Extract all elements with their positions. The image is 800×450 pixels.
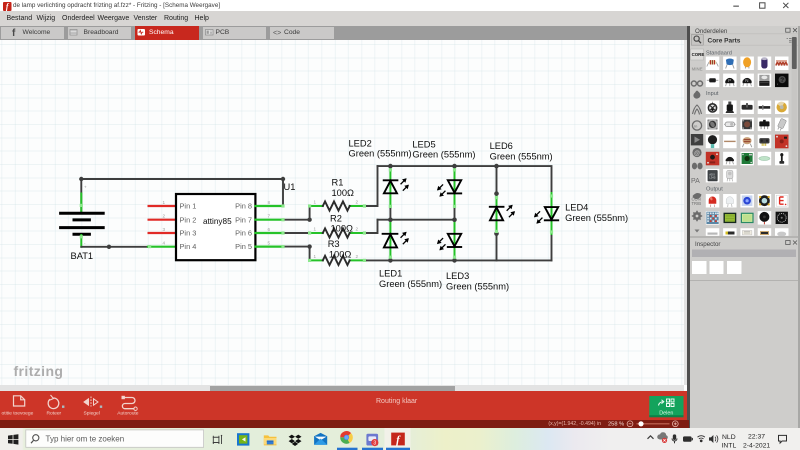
resistor R1: [310, 205, 366, 207]
LED6 green wire: [496, 194, 498, 234]
mouse icon: [693, 193, 702, 199]
infinity logo: [691, 81, 702, 86]
Delen button: [649, 396, 683, 417]
svg-text:Delen: Delen: [659, 410, 673, 416]
svg-text:4: 4: [163, 240, 166, 245]
slide switch icon: [724, 122, 736, 127]
LED4 green wire: [551, 193, 553, 234]
tiny pin numbers: [84, 185, 359, 260]
svg-text:6: 6: [268, 227, 271, 232]
app with badge icon: [366, 434, 378, 447]
tab bar: [0, 26, 688, 40]
LED2 green wire: [389, 167, 391, 207]
knob gold icon: [777, 102, 787, 113]
svg-text:Typ hier om te zoeken: Typ hier om te zoeken: [46, 435, 125, 444]
buzzer icon: [759, 212, 769, 224]
tray battery: [683, 436, 692, 441]
battery BAT1: [61, 213, 104, 234]
tilt sensor icon: [776, 118, 786, 131]
running app underline indicators: [337, 448, 358, 450]
svg-text:Green (555nm): Green (555nm): [490, 151, 553, 161]
wire LED6 column verticals: [496, 166, 498, 260]
button add note: [14, 396, 25, 406]
LED3 arrows: [437, 239, 445, 251]
7-segment icon: [776, 195, 787, 206]
slide pot thin icon: [759, 105, 771, 110]
svg-text:N: N: [745, 78, 748, 83]
svg-text:Input: Input: [706, 91, 719, 97]
blue LED icon: [742, 195, 753, 206]
svg-text:otitie toevoege: otitie toevoege: [2, 410, 34, 416]
svg-text:Green (555nm): Green (555nm): [412, 150, 475, 160]
svg-text:5: 5: [268, 240, 271, 245]
capacitor blue icon: [726, 59, 735, 69]
std row1 cells: [706, 57, 789, 71]
LED5 symbol: [448, 180, 461, 193]
CONTRIB text: [692, 197, 702, 207]
membrane oval icon: [759, 157, 770, 161]
IR receiver icon: [727, 171, 733, 182]
potentiometer icon: [726, 102, 735, 114]
inspector swatches: [692, 261, 742, 274]
resistor R2: [310, 232, 366, 234]
op-amp U1 attiny85 box: [176, 194, 255, 260]
task view icon: [213, 435, 222, 444]
svg-text:1: 1: [314, 227, 317, 232]
svg-text:100Ω: 100Ω: [331, 223, 354, 233]
microphone icon: [708, 135, 717, 148]
pin labels inside U1: [180, 202, 253, 252]
vertical trim pot icon: [779, 153, 784, 164]
wire top bus: [378, 166, 552, 193]
seeed wave icon: [693, 105, 702, 115]
input row3 cells: [706, 135, 771, 149]
wire green battery plus stub: [80, 194, 82, 213]
junction dots middle bus: [388, 217, 393, 222]
mosfet icon: [759, 75, 769, 86]
svg-text:-: -: [84, 241, 86, 246]
pin1 stub red: [149, 205, 176, 207]
transistor black icon: [726, 157, 734, 164]
svg-text:attiny85: attiny85: [203, 217, 232, 226]
svg-text:PA: PA: [691, 178, 700, 185]
wire green battery minus stub: [80, 235, 82, 247]
pin8 stub green: [255, 205, 283, 207]
junction dots bottom bus: [388, 258, 393, 263]
svg-text:Pin 1: Pin 1: [180, 202, 197, 211]
node bendpoint battery top: [79, 177, 83, 181]
svg-text:Roteer: Roteer: [47, 410, 62, 416]
chrome icon: [340, 431, 353, 444]
input row2 cells: [706, 118, 789, 132]
white LED icon: [726, 197, 733, 207]
svg-text:2: 2: [163, 214, 166, 219]
switch SPDT icon: [759, 120, 769, 129]
svg-text:R2: R2: [330, 214, 342, 224]
tray microphone: [672, 434, 678, 443]
flex strip icon: [724, 141, 736, 142]
svg-text:Pin 8: Pin 8: [235, 202, 252, 211]
junction dots LED6: [494, 191, 499, 196]
inspector title bar: [692, 250, 796, 258]
svg-text:1: 1: [314, 200, 317, 205]
red LED icon: [709, 196, 717, 207]
svg-text:3: 3: [373, 441, 376, 447]
svg-text:R3: R3: [328, 239, 340, 249]
svg-text:Spiegel: Spiegel: [84, 410, 100, 416]
svg-text:LED4: LED4: [565, 203, 588, 213]
svg-text:LED1: LED1: [379, 269, 402, 279]
std row2 cells: [706, 74, 771, 88]
svg-text:Core Parts: Core Parts: [708, 37, 741, 44]
svg-text:LED2: LED2: [349, 138, 372, 148]
taskbar: [0, 427, 689, 428]
svg-text:MINE: MINE: [692, 67, 703, 72]
resistor R3: [310, 259, 366, 261]
LED5 green wire: [454, 167, 456, 207]
green pcb sensor icon: [742, 153, 753, 164]
tray chevron: [648, 436, 654, 439]
gear icon: [692, 211, 702, 221]
wire R1 right to top bus: [366, 166, 378, 206]
tab icons: [0, 26, 688, 40]
svg-text:LED3: LED3: [446, 271, 469, 281]
junction dots top bus: [388, 164, 393, 169]
encoder w wires icon: [759, 138, 769, 146]
LCD teal icon: [741, 213, 754, 223]
LED3 symbol: [448, 234, 461, 247]
LED3 green wire: [454, 220, 456, 259]
wire pin4 green stub: [148, 246, 176, 248]
svg-text:Green (555nm): Green (555nm): [349, 148, 412, 158]
output row2 cells: [706, 211, 771, 225]
wire pin7 to R1: [283, 206, 310, 220]
LED5 arrows: [437, 185, 445, 197]
svg-text:R1: R1: [332, 177, 344, 187]
wire pin6 to R2: [283, 232, 310, 234]
red pcb sensor icon: [775, 135, 789, 149]
bugs icon: [692, 163, 703, 170]
scroll down arrow: [695, 230, 700, 233]
inductor icon: [776, 61, 787, 66]
toolbar icons and status: [0, 391, 689, 428]
active app cell highlight: [385, 428, 411, 450]
svg-text:P: P: [728, 78, 731, 83]
tray speaker: [709, 435, 713, 443]
svg-text:+: +: [84, 185, 87, 190]
svg-text:1: 1: [163, 200, 166, 205]
svg-text:Output: Output: [706, 186, 723, 192]
tray onedrive: [657, 432, 668, 439]
svg-text:100Ω: 100Ω: [332, 188, 355, 198]
transistor PNP icon: [725, 78, 734, 86]
LED4 arrows: [534, 212, 542, 224]
output row3 cells partial: [706, 228, 789, 236]
circle logo: [692, 121, 701, 130]
resistor smd icon: [707, 78, 719, 82]
output row1 cells: [706, 194, 789, 208]
LED6 arrows: [507, 205, 515, 217]
menu bar: [0, 11, 800, 27]
title bar: [0, 0, 800, 11]
tray wifi: [698, 436, 705, 442]
trimpot icon: [708, 102, 718, 113]
action center: [779, 435, 787, 443]
inspector divider: [690, 236, 798, 238]
svg-text:Pin 4: Pin 4: [180, 242, 197, 251]
LED2 symbol: [384, 180, 398, 193]
svg-text:Pin 6: Pin 6: [235, 229, 252, 238]
svg-text:Green (555nm): Green (555nm): [565, 213, 628, 223]
mail icon: [314, 433, 327, 445]
fritzing taskbar icon: [391, 433, 405, 446]
svg-text:CORE: CORE: [692, 52, 705, 57]
app movie maker icon: [237, 433, 249, 445]
svg-text:Inspector: Inspector: [695, 241, 720, 248]
LED1 green wire: [389, 220, 391, 259]
capacitor orange icon: [743, 57, 751, 68]
svg-text:U1: U1: [284, 182, 296, 192]
button Autoroute: [122, 398, 135, 409]
pin3 stub red: [149, 232, 176, 234]
svg-text:7: 7: [268, 214, 271, 219]
tactile button icon: [742, 120, 752, 130]
pin5 stub green: [255, 246, 283, 248]
category strip: [691, 49, 705, 72]
svg-text:?: ?: [780, 77, 784, 84]
svg-text:Pin 5: Pin 5: [235, 242, 252, 251]
search box: [26, 430, 204, 447]
red toolbar: [0, 391, 687, 420]
motor fan icon: [759, 195, 770, 206]
pin6 stub green: [255, 232, 283, 234]
button Spiegel: [84, 397, 98, 407]
svg-text:2: 2: [356, 227, 359, 232]
svg-text:LED5: LED5: [412, 139, 435, 149]
svg-text:2-4-2021: 2-4-2021: [743, 442, 770, 449]
svg-text:Autoroute: Autoroute: [117, 410, 138, 416]
resistor icon: [707, 60, 719, 66]
LED2 arrows: [401, 178, 409, 190]
wire battery bottom to pin4: [81, 246, 148, 248]
scrollbars: [0, 385, 684, 391]
wire battery top to U1 pin8: [81, 179, 283, 212]
canvas with grid: [0, 40, 684, 385]
window buttons: [725, 0, 800, 11]
svg-text:TRIB: TRIB: [692, 201, 702, 206]
wire LED4 column bottom: [551, 234, 553, 260]
transistor NPN icon: [743, 78, 752, 86]
slider pot icon: [742, 103, 753, 109]
LED matrix icon: [706, 212, 718, 224]
svg-text:8: 8: [268, 200, 271, 205]
gauge meter icon: [776, 212, 788, 224]
file explorer icon: [264, 435, 277, 445]
pin2 stub red: [149, 219, 176, 221]
right panel: [690, 26, 798, 428]
accel chip icon: [708, 170, 718, 181]
svg-text:1: 1: [314, 254, 317, 259]
windows start logo: [8, 434, 18, 444]
LED1 symbol: [383, 234, 398, 248]
svg-text:@: @: [694, 151, 700, 157]
svg-text:2: 2: [356, 254, 359, 259]
at-sign icon: [692, 148, 701, 157]
svg-text:2: 2: [356, 200, 359, 205]
flame icon: [693, 91, 700, 99]
input row4: [706, 152, 720, 166]
svg-text:100Ω: 100Ω: [329, 249, 352, 259]
parts scrollbar: [792, 35, 798, 236]
fritzing app icon: [3, 2, 12, 11]
svg-text:NLD: NLD: [722, 434, 736, 441]
LCD green icon: [724, 213, 737, 223]
svg-text:Pin 7: Pin 7: [235, 215, 252, 224]
LED6 symbol: [490, 207, 504, 221]
wire pin5 to R3: [283, 247, 310, 261]
input row5: [706, 169, 737, 183]
input row1 cells: [706, 101, 789, 115]
wire R2 right to middle bus: [366, 220, 378, 233]
svg-text:Green (555nm): Green (555nm): [379, 279, 442, 289]
svg-text:Pin 3: Pin 3: [180, 229, 197, 238]
svg-text:in: in: [694, 124, 697, 129]
mystery part icon: [777, 76, 786, 84]
LED1 arrows: [401, 232, 409, 244]
play box dark: [691, 134, 703, 145]
dropbox icon: [289, 435, 302, 446]
wire middle bus: [378, 219, 455, 221]
bright green terminal tips: [80, 168, 553, 262]
svg-text:Standaard: Standaard: [706, 50, 732, 56]
svg-text:INTL: INTL: [722, 442, 737, 449]
svg-text:Green (555nm): Green (555nm): [446, 282, 509, 292]
node bendpoint battery bottom wire: [107, 245, 111, 249]
wire bottom bus: [366, 259, 552, 261]
svg-text:L345: L345: [709, 176, 716, 180]
pin7 stub green: [255, 219, 283, 221]
button Roteer: [48, 395, 59, 409]
node bendpoint U1 top corner: [281, 177, 285, 181]
svg-text:BAT1: BAT1: [71, 251, 94, 261]
text labels: [71, 138, 629, 291]
red pcb 2 icon: [707, 153, 718, 163]
svg-text:Pin 2: Pin 2: [180, 215, 197, 224]
LDR icon: [742, 137, 751, 147]
svg-text:22:37: 22:37: [748, 433, 765, 440]
search button: [691, 35, 703, 46]
svg-text:3: 3: [163, 227, 166, 232]
parts grid: [706, 57, 789, 88]
capacitor electrolytic icon: [761, 57, 767, 68]
rotary encoder icon: [707, 119, 718, 129]
svg-text:LED6: LED6: [490, 141, 513, 151]
LED4 symbol: [545, 207, 558, 220]
